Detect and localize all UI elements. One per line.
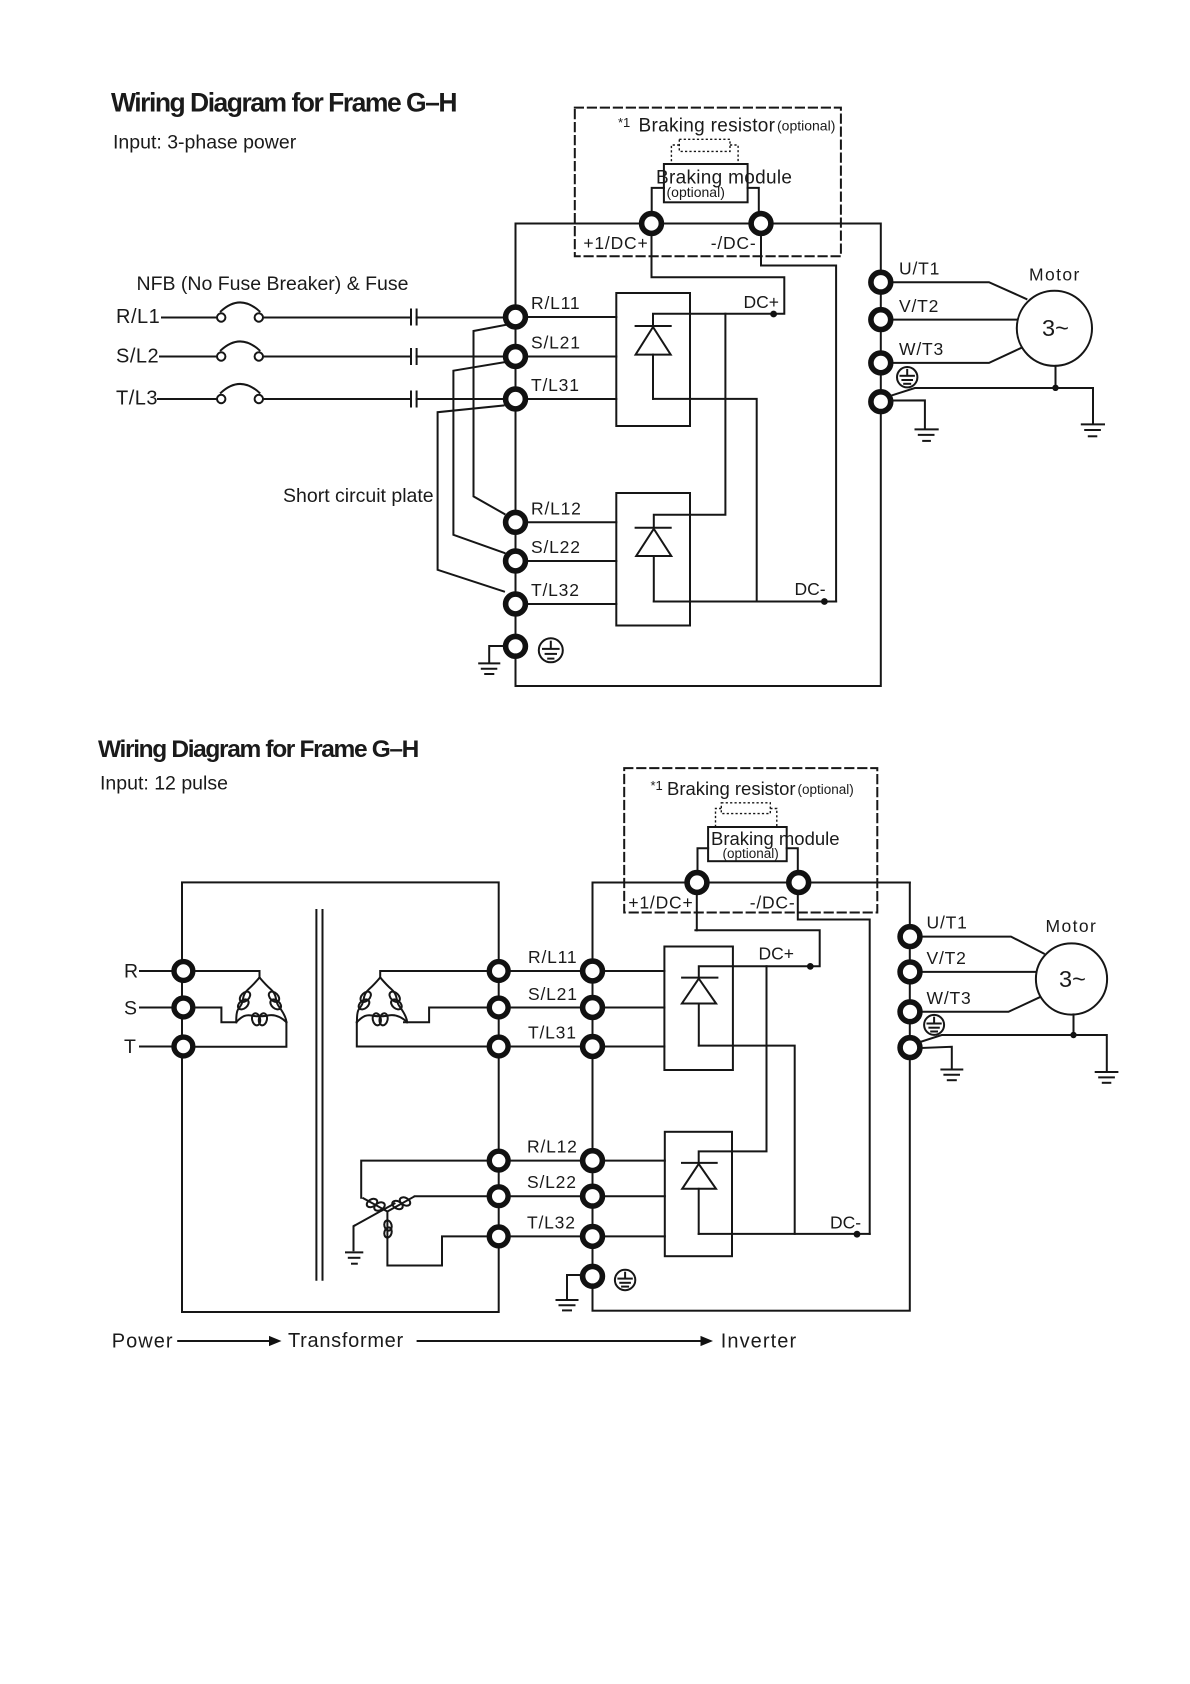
svg-text:(optional): (optional) bbox=[798, 782, 854, 797]
wire DC+ from +1/DC+ terminal to rectifier cathode bbox=[652, 236, 785, 326]
terminal R/L11 bbox=[506, 307, 526, 327]
wire T lead bbox=[140, 1046, 172, 1048]
terminal U/T1 (12 pulse) bbox=[900, 927, 920, 947]
svg-text:DC-: DC- bbox=[830, 1213, 861, 1233]
svg-text:Short circuit plate: Short circuit plate bbox=[283, 485, 434, 507]
junction dot DC- bbox=[821, 598, 828, 605]
svg-text:R/L12: R/L12 bbox=[527, 1137, 578, 1157]
wire R/L11 to rectifier bbox=[528, 316, 616, 318]
wire ground terminal to drive earth bbox=[892, 400, 925, 428]
wire -/DC- terminal down to DC- rail bbox=[761, 236, 836, 602]
terminal T/L31 (inverter input) bbox=[583, 1037, 603, 1057]
diode lower (12 pulse) bbox=[682, 1163, 717, 1234]
wire fuse to terminal T/L31 bbox=[417, 398, 503, 400]
inverter top bus line (thick) bbox=[593, 882, 910, 884]
wire wye upper-right leg to S/L22 bbox=[415, 1195, 487, 1197]
wire S/L22 to rectifier bbox=[528, 560, 616, 562]
wire R/L11 into rectifier (12 pulse) bbox=[605, 970, 665, 972]
wire S/L22 into rectifier (12 pulse) bbox=[605, 1195, 665, 1197]
braking resistor dotted body bbox=[679, 139, 730, 151]
svg-text:Power: Power bbox=[112, 1331, 174, 1353]
terminal ground (output side) bbox=[871, 392, 891, 412]
wire T/L3 to breaker bbox=[158, 398, 217, 400]
svg-text:-/DC-: -/DC- bbox=[711, 233, 757, 253]
wire R/L12 to rectifier bbox=[528, 521, 616, 523]
terminal -/DC- (12 pulse) bbox=[789, 873, 809, 893]
terminal -/DC- bbox=[751, 214, 771, 234]
wire DC+ from +1/DC+ terminal to rectifier (12 pulse) bbox=[696, 895, 698, 930]
svg-text:S/L2: S/L2 bbox=[116, 346, 159, 368]
inverter enclosure box (top diagram) bbox=[516, 224, 881, 687]
wire link S/L21 bbox=[511, 1007, 581, 1009]
svg-text:V/T2: V/T2 bbox=[927, 948, 967, 968]
svg-text:Transformer: Transformer bbox=[288, 1330, 404, 1352]
wire S/L21 into rectifier (12 pulse) bbox=[605, 1007, 665, 1009]
wire R/L1 to breaker bbox=[162, 317, 217, 319]
short circuit plate link T/L31 to T/L32 bbox=[438, 406, 504, 592]
terminal S/L22 bbox=[506, 551, 526, 571]
terminal R bbox=[174, 962, 193, 981]
earth ground symbol (12 pulse motor side) bbox=[1096, 1072, 1118, 1083]
svg-text:Wiring Diagram for Frame G–H: Wiring Diagram for Frame G–H bbox=[98, 736, 419, 763]
diode upper (12 pulse) bbox=[682, 978, 718, 1046]
braking module box (12 pulse) bbox=[708, 827, 787, 861]
svg-text:Motor: Motor bbox=[1029, 265, 1081, 285]
wire link R/L12 bbox=[511, 1160, 581, 1162]
terminal T/L32 bbox=[506, 594, 526, 614]
wire link S/L22 bbox=[511, 1195, 581, 1197]
junction dot motor ground bbox=[1052, 385, 1058, 391]
terminal R/L12 (inverter input) bbox=[583, 1151, 603, 1171]
svg-text:S/L22: S/L22 bbox=[531, 537, 581, 557]
wire wye neutral to earth bbox=[354, 1226, 355, 1251]
inverter enclosure box (12 pulse) bbox=[593, 883, 910, 1311]
wire S/L2 to breaker bbox=[160, 356, 217, 358]
earth ground symbol (drive side) bbox=[916, 429, 938, 441]
svg-text:W/T3: W/T3 bbox=[899, 339, 944, 359]
svg-text:S/L22: S/L22 bbox=[527, 1172, 577, 1192]
braking resistor dotted body (12 pulse) bbox=[721, 803, 770, 814]
thick wire braking module right lead (12 pulse) bbox=[787, 848, 798, 871]
svg-text:S/L21: S/L21 bbox=[531, 333, 581, 353]
svg-text:Inverter: Inverter bbox=[721, 1331, 798, 1353]
svg-text:W/T3: W/T3 bbox=[927, 988, 972, 1008]
svg-text:Wiring Diagram for Frame G–H: Wiring Diagram for Frame G–H bbox=[111, 88, 456, 118]
motor circle 3~ (12 pulse) bbox=[1036, 943, 1107, 1014]
svg-text:T/L31: T/L31 bbox=[531, 375, 580, 395]
wire R/L12 into rectifier (12 pulse) bbox=[605, 1160, 665, 1162]
wire motor to ground rail bbox=[1055, 366, 1057, 388]
terminal T/L31 (transformer output) bbox=[489, 1037, 508, 1056]
svg-text:3~: 3~ bbox=[1059, 966, 1086, 992]
svg-text:U/T1: U/T1 bbox=[927, 913, 968, 933]
svg-text:U/T1: U/T1 bbox=[899, 259, 940, 279]
terminal V/T2 (12 pulse) bbox=[900, 962, 920, 982]
svg-text:*1: *1 bbox=[651, 778, 663, 793]
junction dot DC+ (12 pulse) bbox=[807, 963, 814, 970]
terminal T/L32 (transformer output) bbox=[489, 1227, 508, 1246]
wire link R/L11 bbox=[511, 970, 581, 972]
short circuit plate link S/L21 to S/L22 bbox=[453, 362, 505, 553]
braking option dashed enclosure (top diagram) bbox=[575, 108, 841, 257]
wire link T/L31 bbox=[511, 1046, 581, 1048]
wire U/T1 to motor (12 pulse) bbox=[923, 937, 1044, 954]
svg-text:3~: 3~ bbox=[1042, 315, 1069, 341]
terminal ground (input side) bbox=[506, 636, 526, 656]
svg-text:R/L11: R/L11 bbox=[531, 293, 580, 313]
wire secondary delta apex to R/L11 bbox=[380, 971, 487, 978]
svg-text:T: T bbox=[124, 1036, 136, 1058]
terminal ground (12 pulse output side) bbox=[900, 1038, 920, 1058]
wire V/T2 to motor (12 pulse) bbox=[923, 971, 1037, 973]
wire upper diode anode to DC- drop (12 pulse) bbox=[699, 1046, 795, 1234]
earth ground symbol (input side) bbox=[479, 663, 499, 674]
braking resistor dotted leads (12 pulse) bbox=[716, 809, 777, 828]
terminal +1/DC+ (12 pulse) bbox=[687, 873, 707, 893]
wire ground terminal to drive earth (12 pulse) bbox=[922, 1047, 952, 1068]
wire fuse to terminal S/L21 bbox=[417, 356, 503, 358]
terminal T/L31 bbox=[506, 389, 526, 409]
svg-text:S: S bbox=[124, 998, 137, 1020]
wire R lead bbox=[140, 970, 172, 972]
breaker NFB pole S bbox=[217, 341, 263, 360]
motor circle 3~ bbox=[1017, 291, 1092, 366]
rectifier box lower (top diagram) bbox=[616, 493, 690, 626]
terminal T bbox=[174, 1037, 193, 1056]
svg-text:(optional): (optional) bbox=[667, 184, 725, 200]
wire motor to ground rail (12 pulse) bbox=[1073, 1014, 1075, 1035]
arrow Transformer to Inverter bbox=[418, 1340, 700, 1342]
svg-text:-/DC-: -/DC- bbox=[750, 893, 796, 913]
wire wye upper-left leg to R/L12 bbox=[361, 1161, 487, 1198]
wire DC- rail bbox=[654, 601, 836, 603]
protective earth symbol (12 pulse output) bbox=[924, 1015, 944, 1035]
svg-text:T/L3: T/L3 bbox=[116, 388, 158, 410]
svg-text:R/L11: R/L11 bbox=[528, 947, 577, 967]
terminal S/L22 (transformer output) bbox=[489, 1187, 508, 1206]
svg-text:V/T2: V/T2 bbox=[899, 296, 939, 316]
wire W/T3 to motor bbox=[893, 348, 1021, 363]
wire -/DC- terminal down to DC- rail (12 pulse) bbox=[798, 895, 870, 1234]
svg-text:(optional): (optional) bbox=[723, 846, 779, 861]
wire link T/L32 bbox=[511, 1235, 581, 1237]
svg-text:NFB (No Fuse Breaker) & Fuse: NFB (No Fuse Breaker) & Fuse bbox=[137, 273, 409, 295]
breaker NFB pole T bbox=[217, 384, 263, 403]
rectifier box upper (top diagram) bbox=[616, 293, 690, 426]
terminal S/L21 (inverter input) bbox=[583, 998, 603, 1018]
diode upper (top diagram) bbox=[636, 326, 671, 399]
wire breaker to fuse R bbox=[263, 317, 411, 319]
wire ground terminal to earth (12 pulse) bbox=[567, 1275, 581, 1299]
wire secondary delta bottom-left to T/L31 bbox=[357, 1022, 487, 1046]
wire V/T2 to motor bbox=[893, 319, 1017, 321]
svg-text:R/L12: R/L12 bbox=[531, 499, 582, 519]
svg-text:(optional): (optional) bbox=[777, 118, 835, 134]
svg-text:S/L21: S/L21 bbox=[528, 984, 578, 1004]
terminal S/L21 (transformer output) bbox=[489, 998, 508, 1017]
wire secondary delta bottom-right to S/L21 bbox=[404, 1008, 487, 1023]
wire S lead bbox=[140, 1007, 172, 1009]
wire R to primary delta apex bbox=[195, 971, 259, 978]
terminal S/L22 (inverter input) bbox=[583, 1186, 603, 1206]
braking module box bbox=[664, 164, 748, 202]
junction dot DC+ bbox=[770, 311, 777, 318]
wire DC+ rail down to lower rectifier (12 pulse) bbox=[699, 966, 767, 1163]
terminal R/L12 bbox=[506, 512, 526, 532]
fuse S bbox=[411, 349, 417, 364]
junction dot motor ground (12 pulse) bbox=[1070, 1032, 1076, 1038]
wire ground terminal to earth bbox=[489, 646, 503, 662]
transformer core double lines bbox=[316, 910, 322, 1280]
wire upper diode anode to DC- drop bbox=[653, 399, 757, 602]
svg-text:T/L31: T/L31 bbox=[528, 1023, 577, 1043]
terminal ground (12 pulse input side) bbox=[583, 1266, 603, 1286]
fuse T bbox=[411, 392, 417, 407]
wire T/L31 into rectifier (12 pulse) bbox=[605, 1046, 665, 1048]
svg-text:DC-: DC- bbox=[795, 579, 826, 599]
transformer primary delta winding bbox=[236, 978, 286, 1027]
svg-text:+1/DC+: +1/DC+ bbox=[583, 233, 648, 253]
terminal R/L11 (inverter input) bbox=[583, 961, 603, 981]
protective earth symbol (output side) bbox=[897, 367, 917, 387]
svg-text:DC+: DC+ bbox=[744, 292, 780, 312]
wire ground rail terminal to motor earth (12 pulse) bbox=[920, 1035, 1107, 1071]
wire ground rail from terminal to motor earth bbox=[891, 388, 1093, 424]
breaker NFB pole R bbox=[217, 302, 263, 321]
terminal W/T3 bbox=[871, 353, 891, 373]
terminal S bbox=[174, 998, 193, 1017]
earth ground symbol (12 pulse input) bbox=[557, 1300, 578, 1310]
earth ground symbol (12 pulse drive side) bbox=[941, 1070, 962, 1081]
wire T/L32 to rectifier bbox=[528, 603, 616, 605]
fuse R bbox=[411, 310, 417, 325]
diode lower (top diagram) bbox=[636, 528, 672, 602]
wire W/T3 to motor (12 pulse) bbox=[923, 997, 1041, 1012]
terminal +1/DC+ bbox=[642, 214, 662, 234]
rectifier box lower (12 pulse) bbox=[665, 1132, 732, 1256]
terminal U/T1 bbox=[871, 272, 891, 292]
wire S to primary delta bottom-left bbox=[195, 1008, 236, 1023]
braking resistor dotted leads bbox=[671, 145, 738, 164]
svg-text:*1: *1 bbox=[618, 115, 630, 130]
arrow Power to Transformer bbox=[178, 1340, 269, 1342]
wire DC+ rail down to lower rectifier bbox=[654, 314, 726, 528]
transformer wye (zig-zag) secondary winding bbox=[355, 1196, 414, 1239]
wire U/T1 to motor bbox=[893, 282, 1026, 299]
rectifier box upper (12 pulse) bbox=[664, 947, 733, 1071]
wire T to primary delta bottom-right bbox=[195, 1022, 286, 1047]
terminal R/L11 (transformer output) bbox=[489, 962, 508, 981]
protective earth symbol (12 pulse input) bbox=[615, 1270, 635, 1290]
svg-text:+1/DC+: +1/DC+ bbox=[628, 893, 693, 913]
short circuit plate link R/L11 to R/L12 bbox=[474, 325, 508, 515]
wire breaker to fuse S bbox=[263, 356, 411, 358]
terminal R/L12 (transformer output) bbox=[489, 1151, 508, 1170]
wire T/L31 to rectifier bbox=[528, 398, 616, 400]
svg-text:DC+: DC+ bbox=[759, 944, 795, 964]
terminal S/L21 bbox=[506, 347, 526, 367]
terminal T/L32 (inverter input) bbox=[583, 1227, 603, 1247]
transformer enclosure box bbox=[182, 882, 499, 1312]
terminal W/T3 (12 pulse) bbox=[900, 1002, 920, 1022]
svg-text:T/L32: T/L32 bbox=[531, 580, 580, 600]
braking option dashed enclosure (12 pulse) bbox=[624, 768, 877, 912]
wire DC- rail (12 pulse) bbox=[699, 1233, 870, 1235]
thick wire braking module left lead bbox=[652, 188, 664, 212]
earth ground symbol (wye neutral) bbox=[346, 1252, 362, 1263]
svg-text:Braking resistor: Braking resistor bbox=[667, 778, 796, 799]
thick wire braking module left lead (12 pulse) bbox=[698, 848, 709, 871]
svg-text:T/L32: T/L32 bbox=[527, 1213, 576, 1233]
svg-text:Input: 3-phase power: Input: 3-phase power bbox=[113, 132, 297, 154]
wire wye lower leg to T/L32 bbox=[387, 1236, 486, 1265]
svg-text:Motor: Motor bbox=[1046, 916, 1098, 936]
wire T/L32 into rectifier (12 pulse) bbox=[605, 1235, 665, 1237]
wire S/L21 to rectifier bbox=[528, 356, 616, 358]
terminal V/T2 bbox=[871, 310, 891, 330]
svg-text:Braking resistor: Braking resistor bbox=[639, 116, 776, 137]
wire breaker to fuse T bbox=[263, 398, 411, 400]
svg-text:Input: 12 pulse: Input: 12 pulse bbox=[100, 773, 228, 795]
svg-text:R/L1: R/L1 bbox=[116, 306, 160, 328]
svg-text:R: R bbox=[124, 961, 138, 983]
earth ground symbol (motor side) bbox=[1082, 424, 1104, 436]
junction dot DC- (12 pulse) bbox=[854, 1231, 861, 1238]
thick wire braking module right lead bbox=[748, 188, 759, 212]
transformer secondary delta winding bbox=[357, 978, 407, 1027]
wire fuse to terminal R/L11 bbox=[417, 317, 503, 319]
protective earth symbol (input side) bbox=[539, 638, 563, 662]
